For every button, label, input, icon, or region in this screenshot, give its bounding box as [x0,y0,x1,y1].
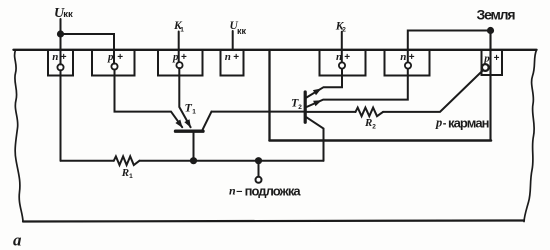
svg-text:карман: карман [448,115,490,130]
Ucc junction dot [57,30,64,37]
junction dot substrate terminal [255,157,262,164]
left torn edge of substrate [15,50,23,222]
svg-text:p: p [435,115,442,129]
svg-text:n: n [52,51,58,63]
svg-text:1: 1 [180,27,184,34]
svg-text:+: + [61,52,67,63]
substrate terminal open circle [256,177,262,183]
svg-text:кк: кк [237,26,247,36]
wire from n+ box1 contact down to substrate rail [60,70,62,161]
right torn edge of substrate [524,50,537,222]
ground wire to n+ box6 contact [408,31,491,63]
transistor T1 base bar [176,129,204,132]
transistor T2 base bar (vertical) [304,92,307,122]
Ucc lead down to node [60,19,62,34]
T2 emitter 1 to n+ box5 lead [307,69,343,98]
svg-text:1: 1 [192,109,196,116]
wire T1 collector to T2 base [212,111,305,113]
contact circle in p+ box 3 [176,62,182,68]
svg-text:подложка: подложка [245,183,302,198]
ground junction dot [487,27,494,34]
p+ region (well contact, ground) [482,50,503,75]
wire R2 to p+ well contact [383,71,483,112]
svg-text:R: R [364,117,372,129]
svg-text:–: – [236,185,242,197]
svg-text:n: n [229,184,236,198]
svg-text:а: а [13,230,22,249]
svg-text:p: p [107,51,114,63]
n+ region (well tie to Ucc) [221,50,244,76]
svg-text:+: + [233,52,239,63]
svg-text:+: + [181,52,187,63]
svg-text:кк: кк [63,9,73,20]
substrate bottom line [23,221,524,222]
svg-text:-: - [443,118,447,130]
K1 lead down to p+ box3 contact [178,32,180,63]
junction dot T1 base / substrate rail [190,157,197,164]
contact circle in p+ box 2 [111,63,117,69]
p-well left edge [268,50,270,141]
p-well right edge / ground lead through p+ contact [489,31,491,141]
T2 emitter 2 to n+ box6 lead [307,69,408,107]
contact circle in n+ box 6 [405,62,411,68]
Ucc center lead down to n+ box4 [232,31,234,50]
svg-text:p: p [483,52,490,64]
resistor R2 in well (base wire) [307,111,356,113]
contact circle in p+ box 7 (bold) [482,64,489,71]
n+ region (to Ucc) [48,50,73,76]
wire p+ box2 contact down-left rail to T1 emitter 1 [115,70,183,128]
n+ region (NMOS source) [385,50,430,76]
wire p+ box3 contact down to T1 emitter 2 [179,68,190,127]
svg-text:Т: Т [185,100,193,114]
svg-text:2: 2 [298,104,302,111]
T2 collector down to substrate rail [307,117,324,160]
contact circle in n+ box 1 [57,64,63,70]
substrate terminal lead [258,161,260,177]
svg-text:2: 2 [372,123,376,130]
svg-text:n: n [400,51,406,63]
resistor R1 on substrate rail [114,156,140,165]
p+ region (PMOS source) [92,50,135,76]
svg-text:R: R [121,167,129,179]
svg-text:Земля: Земля [477,6,516,22]
n+ region (NMOS drain, K2) [320,50,366,76]
substrate rail wire [61,160,324,162]
p+ region (PMOS drain, K1) [158,50,203,76]
wire Ucc node to p+ box2 contact [61,34,115,64]
contact circle in n+ box 5 [339,62,345,68]
K2 lead down to n+ box5 contact [341,32,343,63]
svg-text:1: 1 [129,173,133,180]
svg-text:+: + [409,52,415,63]
T1 collector up to horizontal wire [203,112,212,130]
T1 base lead down to substrate rail [193,131,195,161]
p-well bottom edge [270,139,492,142]
chip top surface line [14,49,537,51]
wire Ucc node down into n+ box1 contact [60,34,62,64]
svg-text:2: 2 [342,27,346,34]
svg-text:n: n [225,51,231,63]
svg-text:+: + [117,52,123,63]
svg-text:+: + [344,52,350,63]
svg-text:+: + [494,53,500,64]
